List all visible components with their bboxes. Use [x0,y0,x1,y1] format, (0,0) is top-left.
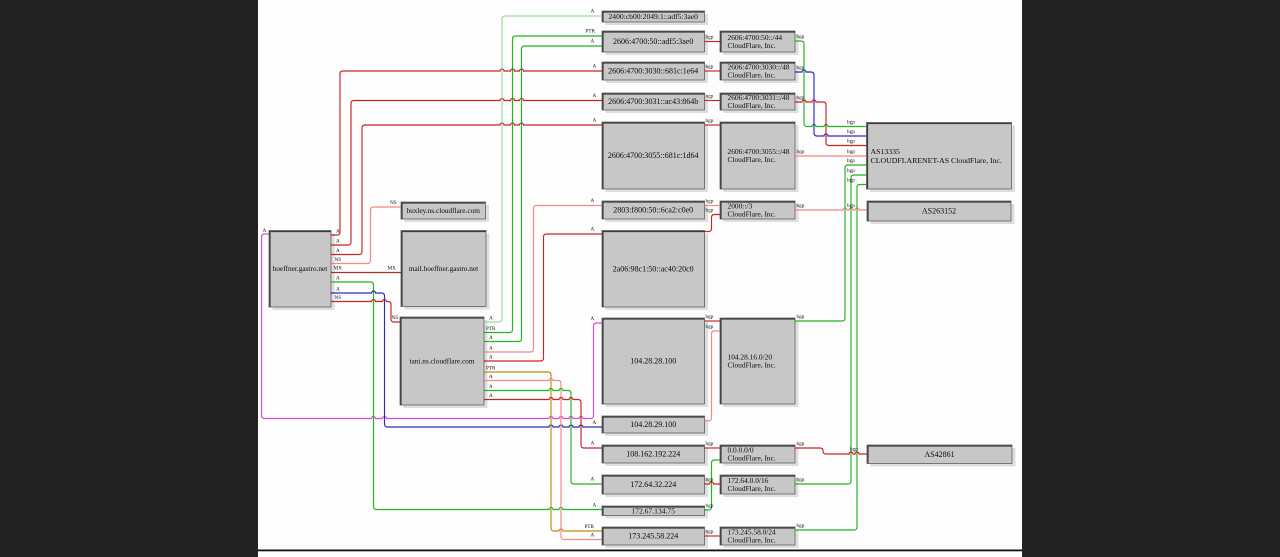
svg-text:2803:f800:50::6ca2:c0e0: 2803:f800:50::6ca2:c0e0 [613,206,693,215]
svg-text:bgp: bgp [706,314,714,320]
node 2606:4700:50::adf5:3ae0 [602,31,708,55]
wire A hoeffner-2606:4700:3031 (red) [331,99,602,246]
svg-text:2606:4700:3031::ac43:864b: 2606:4700:3031::ac43:864b [608,97,698,106]
wire bgp 2a06:98c1-2000::/3 (red) [705,215,721,232]
svg-text:bgp: bgp [706,477,714,483]
wire bgp prefix50-AS13335 (green) [795,41,867,127]
node 0.0.0.0/0 CloudFlare, Inc. [720,445,799,466]
svg-text:A: A [489,393,493,399]
svg-text:PTR: PTR [486,326,496,332]
svg-text:A: A [489,335,493,341]
wire bgp prefix3055-AS13335 (salmon) [795,155,867,157]
svg-text:A: A [593,93,597,99]
svg-text:CloudFlare, Inc.: CloudFlare, Inc. [728,361,776,370]
node 2a06:98c1:50::ac40:20c0 [602,231,708,311]
svg-text:bgp: bgp [706,324,714,330]
svg-text:NS: NS [335,257,342,263]
svg-text:PTR: PTR [586,29,596,35]
svg-text:huxley.ns.cloudflare.com: huxley.ns.cloudflare.com [406,206,480,215]
svg-text:A: A [591,39,595,45]
svg-text:bgp: bgp [706,94,714,100]
node AS13335 CLOUDFLARENET-AS CloudFlare, Inc. [867,123,1016,193]
svg-text:A: A [336,287,340,293]
svg-text:bgp: bgp [797,203,805,209]
svg-text:CloudFlare, Inc.: CloudFlare, Inc. [728,454,776,463]
node 172.64.0.0/16 CloudFlare, Inc. [720,475,799,497]
svg-text:A: A [591,227,595,233]
svg-text:A: A [591,477,595,483]
wire bgp prefix3031-AS13335 (red) [795,100,867,146]
svg-text:MX: MX [388,266,397,272]
wire NS hoeffner-tani (red) [331,300,400,323]
svg-text:A: A [489,316,493,322]
svg-text:CloudFlare, Inc.: CloudFlare, Inc. [728,41,776,50]
svg-text:2606:4700:3030::681c:1e64: 2606:4700:3030::681c:1e64 [608,67,698,76]
node 104.28.16.0/20 CloudFlare, Inc. [720,318,799,407]
node 2606:4700:3031::ac43:864b [602,93,708,113]
wire A tani-2a06:98c1 (red) [484,234,602,361]
wire A tani-2803:f800 (salmon) [484,206,602,353]
svg-text:bgp: bgp [847,129,855,135]
svg-text:MX: MX [334,266,343,272]
svg-text:bgp: bgp [797,523,805,529]
svg-text:172.67.134.75: 172.67.134.75 [631,506,675,515]
node 172.64.32.224 [602,475,708,497]
svg-text:AS13335: AS13335 [871,147,901,156]
wire A hoeffner-172.67.134.75 (green) [331,282,602,510]
wire bgp prefix3030-AS13335 (blue) [795,70,867,136]
svg-text:bgp: bgp [797,65,805,71]
node 104.28.28.100 [602,318,708,407]
svg-text:bgp: bgp [847,139,855,145]
wire NS hoeffner-huxley (salmon) [331,207,401,264]
node 172.67.134.75 [602,506,708,519]
svg-text:CloudFlare, Inc.: CloudFlare, Inc. [728,155,776,164]
svg-text:bgp: bgp [847,178,855,184]
node 173.245.58.224 [602,527,708,548]
svg-text:CLOUDFLARENET-AS CloudFlare, I: CLOUDFLARENET-AS CloudFlare, Inc. [871,156,1002,165]
svg-text:2a06:98c1:50::ac40:20c0: 2a06:98c1:50::ac40:20c0 [613,265,694,274]
svg-text:108.162.192.224: 108.162.192.224 [626,450,680,459]
wire A tani-2606:4700:50 (green) [484,46,602,342]
wire bgp 2606:4700:3055-prefix (red) [705,124,721,126]
wire bgp 2000::/3-AS263152 (salmon) [795,208,867,210]
svg-text:CloudFlare, Inc.: CloudFlare, Inc. [728,71,776,80]
svg-text:2606:4700:3055::681c:1d64: 2606:4700:3055::681c:1d64 [608,151,699,160]
svg-text:hoeffner.gastro.net: hoeffner.gastro.net [273,264,328,273]
svg-text:172.64.32.224: 172.64.32.224 [630,480,676,489]
svg-text:bgp: bgp [706,208,714,214]
svg-text:bgp: bgp [797,477,805,483]
svg-text:104.28.29.100: 104.28.29.100 [630,420,676,429]
wire bgp 108.162.192.224-prefix (red) [705,447,721,449]
svg-text:A: A [336,248,340,254]
svg-text:bgp: bgp [706,35,714,41]
wire A tani-173.245.58.224 (salmon) [484,379,602,540]
svg-text:PTR: PTR [585,524,595,530]
svg-text:AS263152: AS263152 [922,207,956,216]
svg-text:A: A [489,384,493,390]
wire bgp 104.28.29.100-prefix (salmon) [705,331,721,421]
wire bgp 2606:4700:3031-prefix (red) [705,100,721,102]
svg-text:173.245.58.224: 173.245.58.224 [628,532,678,541]
node 104.28.29.100 [602,416,708,436]
svg-text:mail.hoeffner.gastro.net: mail.hoeffner.gastro.net [409,264,478,273]
svg-text:2606:4700:50::adf5:3ae0: 2606:4700:50::adf5:3ae0 [613,37,693,46]
wire bgp 2606:4700:50-prefix (red) [705,41,721,43]
wire A tani-2400:cb00 (green) [484,16,602,322]
svg-text:bgp: bgp [706,64,714,70]
svg-text:bgp: bgp [847,168,855,174]
node mail.hoeffner.gastro.net [401,231,490,310]
wire A hoeffner-2606:4700:3055 (red) [331,123,602,255]
svg-text:A: A [336,229,340,235]
svg-text:A: A [336,276,340,282]
wire A hoeffner-2606:4700:3030 (red) [331,69,602,235]
svg-text:A: A [593,420,597,426]
svg-text:A: A [593,118,597,124]
svg-text:bgp: bgp [850,447,858,453]
node 2606:4700:3030::/48 CloudFlare, Inc. [720,62,799,83]
svg-text:bgp: bgp [847,158,855,164]
wire bgp 104.28.28.100-prefix (red) [705,320,721,322]
svg-text:bgp: bgp [706,529,714,535]
wire bgp 172.64.0.0/16-AS13335 (green) [795,175,867,484]
wire A tani-172.64.32.224 (green) [484,389,602,485]
node hoeffner.gastro.net [269,231,335,311]
svg-text:NS: NS [335,295,342,301]
svg-text:NS: NS [390,200,397,206]
svg-text:CloudFlare, Inc.: CloudFlare, Inc. [728,484,776,493]
svg-text:CloudFlare, Inc.: CloudFlare, Inc. [728,101,776,110]
node 2000::/3 CloudFlare, Inc. [720,201,799,222]
svg-text:A: A [489,355,493,361]
svg-text:A: A [591,533,595,539]
svg-text:bgp: bgp [797,149,805,155]
wire bgp 2803:f800-2000::/3 (salmon) [705,205,721,207]
wire A tani-108.162.192.224 (red) [484,398,602,449]
node AS263152 [867,201,1015,224]
wire PTR tani-2606:4700:50 (green) [484,36,602,333]
wire bgp 104.28.16.0/20-AS13335 (green) [795,165,867,321]
wire A hoeffner-104.28.28.100 (magenta) [262,234,603,419]
node 2400:cb00:2049:1::adf5:3ae0 [602,11,708,25]
svg-text:bgp: bgp [706,441,714,447]
svg-text:2400:cb00:2049:1::adf5:3ae0: 2400:cb00:2049:1::adf5:3ae0 [608,12,698,21]
svg-text:tani.ns.cloudflare.com: tani.ns.cloudflare.com [409,357,474,366]
svg-text:AS42861: AS42861 [924,450,954,459]
svg-text:A: A [593,503,597,509]
node 173.245.58.0/24 CloudFlare, Inc. [720,527,799,548]
svg-text:A: A [591,316,595,322]
wire bgp 0.0.0.0/0-AS42861 (red) [795,448,867,454]
svg-text:CloudFlare, Inc.: CloudFlare, Inc. [728,210,776,219]
svg-text:A: A [489,374,493,380]
node 2606:4700:50::/44 CloudFlare, Inc. [720,31,799,55]
node 2606:4700:3055::681c:1d64 [602,122,708,192]
svg-text:104.28.28.100: 104.28.28.100 [630,357,676,366]
svg-text:A: A [593,64,597,70]
svg-text:A: A [591,441,595,447]
svg-text:CloudFlare, Inc.: CloudFlare, Inc. [728,536,776,545]
wire PTR tani-173.245.58.224 (orange) [484,372,602,531]
node 2606:4700:3031::/48 CloudFlare, Inc. [720,93,799,113]
node AS42861 [867,445,1016,467]
wire bgp 172.64.32.224-prefix (red) [705,482,721,484]
frame bottom border [258,550,1022,552]
svg-text:NS: NS [392,315,399,321]
node tani.ns.cloudflare.com [400,317,488,408]
svg-text:bgp: bgp [797,314,805,320]
svg-text:A: A [591,198,595,204]
wire bgp 173.245.58.224-prefix (red) [705,535,721,537]
svg-text:PTR: PTR [486,366,496,372]
svg-text:bgp: bgp [706,118,714,124]
node 2606:4700:3055::/48 CloudFlare, Inc. [720,122,799,192]
node 2803:f800:50::6ca2:c0e0 [602,201,708,222]
svg-text:A: A [489,346,493,352]
wire bgp 172.67.134.75-0.0.0.0/0 (green) [705,460,721,510]
wire A hoeffner-104.28.29.100 (blue) [331,291,602,427]
node 108.162.192.224 [602,445,708,466]
wire bgp 2606:4700:3030-prefix (red) [705,70,721,72]
svg-text:bgp: bgp [706,199,714,205]
svg-text:A: A [591,9,595,15]
svg-text:bgp: bgp [847,120,855,126]
wire MX hoeffner-mail (maroon) [331,272,401,274]
wire bgp 173.245.58.0/24-AS13335 (green) [795,185,867,531]
node huxley.ns.cloudflare.com [401,202,489,222]
svg-text:bgp: bgp [797,34,805,40]
svg-text:bgp: bgp [847,149,855,155]
svg-text:A: A [336,239,340,245]
node 2606:4700:3030::681c:1e64 [602,62,708,83]
svg-text:bgp: bgp [706,503,714,509]
svg-text:bgp: bgp [797,95,805,101]
svg-text:bgp: bgp [797,441,805,447]
svg-text:A: A [263,228,267,234]
